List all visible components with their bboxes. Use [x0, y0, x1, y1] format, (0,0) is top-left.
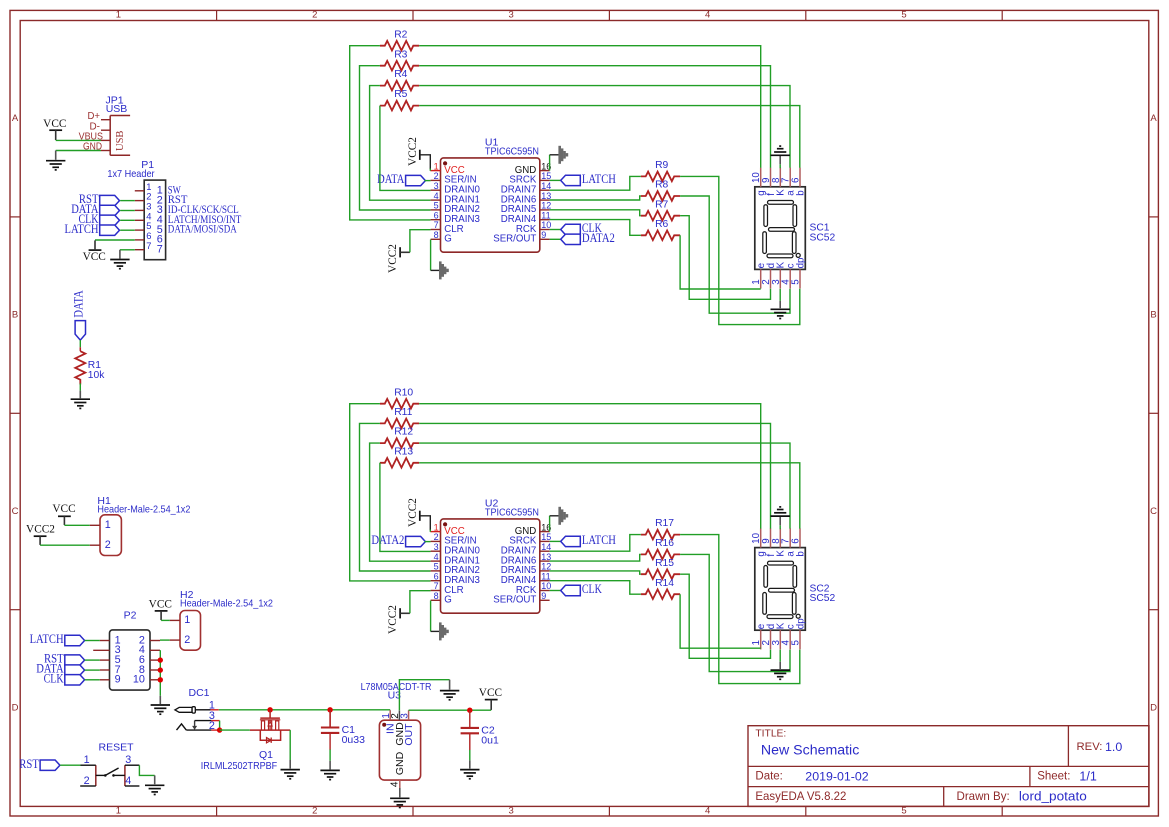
- svg-text:DC1: DC1: [188, 687, 209, 699]
- net flag DATA at U1: [406, 175, 426, 185]
- wire: [680, 196, 790, 313]
- P2 pin 10: [150, 679, 160, 681]
- ground at P1 pin7: [110, 260, 129, 269]
- JP1 pin GND: [101, 150, 110, 152]
- U1 pin 12 DRAIN5: [540, 209, 550, 211]
- wire: [420, 516, 431, 530]
- U1 pin 7 CLR: [431, 229, 441, 231]
- display SC1 body: [755, 187, 806, 270]
- svg-text:SER/OUT: SER/OUT: [493, 595, 536, 606]
- resistor R14: [641, 589, 680, 599]
- svg-text:Header-Male-2.54_1x2: Header-Male-2.54_1x2: [97, 504, 190, 516]
- U1 pin 3 DRAIN0: [431, 189, 441, 191]
- ground at RESET: [145, 785, 164, 794]
- U1 pin 11 DRAIN4: [540, 219, 550, 221]
- U2 pin 10 RCK: [540, 590, 550, 592]
- svg-text:DATA2: DATA2: [371, 533, 404, 547]
- wire: [370, 86, 431, 201]
- svg-text:9: 9: [541, 230, 546, 240]
- svg-text:CLK: CLK: [44, 671, 64, 685]
- svg-text:4: 4: [434, 191, 439, 201]
- wire: [550, 238, 561, 240]
- wire: [550, 571, 641, 574]
- net flag RST at RESET: [40, 760, 60, 770]
- wire: [550, 176, 641, 190]
- U3 pin 2 GND: [398, 710, 400, 720]
- wire: [289, 730, 291, 760]
- wire: [550, 540, 561, 542]
- wire: [779, 650, 781, 662]
- svg-text:R6: R6: [655, 219, 668, 230]
- wire: [380, 106, 431, 191]
- U2 pin 5 DRAIN2: [431, 570, 441, 572]
- svg-text:R7: R7: [655, 199, 668, 210]
- wire: [120, 249, 135, 251]
- capacitor C1: [321, 710, 339, 750]
- svg-text:VCC2: VCC2: [387, 244, 399, 273]
- wire: [85, 659, 100, 661]
- net flag RST at P2: [65, 655, 85, 665]
- wire: [680, 594, 761, 648]
- wire: [159, 650, 161, 696]
- svg-text:TPIC6C595N: TPIC6C595N: [485, 146, 539, 158]
- P2 pin 1: [100, 640, 110, 642]
- IC U1 body: [441, 158, 540, 252]
- resistor R17: [641, 530, 680, 540]
- U1 pin 6 DRAIN3: [431, 219, 441, 221]
- svg-text:R2: R2: [394, 29, 407, 40]
- ground at C2: [460, 770, 479, 779]
- net flag CLK at P1: [100, 215, 120, 225]
- JP1 pin VBUS: [101, 139, 110, 141]
- net flag DATA at P1: [100, 205, 120, 215]
- svg-text:2019-01-02: 2019-01-02: [805, 770, 868, 784]
- svg-text:b: b: [795, 190, 806, 196]
- SC1 bottom pin 5 (dp): [799, 269, 801, 288]
- svg-text:G: G: [444, 595, 452, 606]
- wire: [550, 515, 559, 517]
- svg-text:OUT: OUT: [403, 723, 415, 746]
- power flag VCC: [58, 516, 71, 525]
- junction: [158, 677, 163, 682]
- svg-text:3: 3: [125, 754, 131, 766]
- wire: [399, 680, 449, 711]
- resistor R5: [380, 101, 419, 111]
- SC1 bottom pin 4 (c): [789, 269, 791, 288]
- svg-text:1: 1: [116, 806, 121, 817]
- svg-text:14: 14: [541, 542, 551, 552]
- wire: [419, 443, 790, 528]
- ground at Q1: [281, 770, 300, 779]
- ground at U1 pin8: [440, 261, 447, 279]
- SC1 top pin 9 (f): [770, 168, 772, 187]
- svg-text:5: 5: [434, 201, 439, 211]
- wire: [409, 709, 492, 711]
- transistor Q1: [250, 710, 290, 743]
- resistor R10: [380, 399, 419, 409]
- svg-text:R8: R8: [655, 180, 668, 191]
- wire: [360, 66, 431, 210]
- P2 pin 3: [93, 649, 109, 651]
- ground stem: [779, 662, 781, 669]
- svg-text:B: B: [12, 310, 18, 321]
- svg-text:R5: R5: [394, 89, 407, 100]
- SC1 bottom pin 3 (K): [779, 269, 781, 288]
- wire: [419, 106, 800, 168]
- svg-text:7: 7: [146, 240, 151, 251]
- resistor R2: [380, 41, 419, 51]
- resistor R16: [641, 550, 680, 560]
- net flag LATCH at P2: [65, 635, 85, 645]
- SC1 top pin 6 (b): [799, 168, 801, 187]
- wire: [779, 525, 781, 529]
- P2 pin 7: [100, 669, 110, 671]
- svg-text:New Schematic: New Schematic: [761, 741, 859, 757]
- svg-text:1: 1: [184, 614, 190, 626]
- wire: [550, 179, 561, 181]
- svg-text:VCC2: VCC2: [26, 524, 55, 536]
- svg-text:VCC2: VCC2: [387, 605, 399, 634]
- wire: [219, 721, 221, 731]
- svg-text:3: 3: [509, 10, 514, 21]
- power flag VCC2: [399, 608, 401, 618]
- SC2 top pin 9 (f): [770, 528, 772, 547]
- SC2 top pin 8 (K): [779, 528, 781, 547]
- svg-text:DATA/MOSI/SDA: DATA/MOSI/SDA: [168, 223, 237, 236]
- svg-text:DATA: DATA: [72, 290, 86, 317]
- H2 pin 2: [170, 639, 180, 641]
- svg-text:2: 2: [105, 539, 111, 551]
- resistor R15: [641, 569, 680, 579]
- svg-text:9: 9: [115, 674, 121, 686]
- junction: [467, 708, 472, 713]
- svg-text:b: b: [795, 551, 806, 557]
- svg-text:Header-Male-2.54_1x2: Header-Male-2.54_1x2: [180, 597, 273, 609]
- U3 pin 4: [399, 780, 401, 788]
- svg-text:R10: R10: [394, 387, 413, 398]
- net flag DATA at R1: [75, 321, 85, 341]
- net flag LATCH at U1: [561, 175, 581, 185]
- wire: [419, 66, 770, 168]
- svg-text:3: 3: [434, 542, 439, 552]
- wire: [680, 535, 800, 684]
- wire: [680, 574, 770, 658]
- wire: [550, 554, 641, 561]
- ground stem: [119, 250, 121, 259]
- svg-text:Drawn By:: Drawn By:: [957, 790, 1010, 803]
- wire: [56, 150, 101, 152]
- svg-text:7: 7: [157, 243, 163, 255]
- DC1 pin 3: [211, 720, 219, 722]
- H2 pin 1: [170, 619, 180, 621]
- resistor R4: [380, 81, 419, 91]
- ground stem: [79, 391, 81, 399]
- wire: [350, 404, 431, 581]
- SC2 bottom pin 1 (e): [760, 630, 762, 649]
- U2 pin 15 SRCK: [540, 540, 550, 542]
- JP1 pin D-: [101, 129, 110, 131]
- wire: [419, 86, 790, 168]
- net flag DATA2 at U1: [561, 234, 581, 244]
- wire: [160, 639, 170, 641]
- SC2 seven segment digit: [763, 561, 800, 618]
- svg-text:13: 13: [541, 552, 551, 562]
- svg-text:3: 3: [399, 713, 410, 719]
- svg-text:GND: GND: [394, 751, 406, 775]
- svg-text:4: 4: [705, 806, 710, 817]
- svg-text:5: 5: [791, 640, 802, 646]
- U2 pin 7 CLR: [431, 590, 441, 592]
- svg-text:CLK: CLK: [582, 582, 602, 596]
- ground at JP1: [46, 161, 65, 170]
- net flag LATCH at P1: [100, 225, 120, 235]
- svg-text:Date:: Date:: [755, 771, 783, 783]
- ground at C1: [320, 770, 339, 779]
- wire: [550, 581, 641, 595]
- RESET pin numbers: [84, 754, 132, 787]
- P2 pin 2: [150, 640, 160, 642]
- svg-text:USB: USB: [115, 131, 126, 151]
- wire: [419, 423, 770, 528]
- svg-text:10k: 10k: [88, 370, 105, 381]
- svg-text:VCC2: VCC2: [407, 498, 419, 527]
- P2 pin 8: [150, 669, 160, 671]
- power flag VCC: [49, 130, 62, 140]
- power flag VCC2: [399, 247, 401, 257]
- SC1 top pin 8 (K): [779, 168, 781, 187]
- svg-text:1/1: 1/1: [1079, 770, 1096, 784]
- IC U2 body: [441, 519, 540, 613]
- U1 pin 15 SRCK: [540, 179, 550, 181]
- svg-text:0u1: 0u1: [481, 734, 499, 746]
- svg-text:R4: R4: [394, 69, 407, 80]
- net flag DATA at P2: [65, 665, 85, 675]
- svg-text:4: 4: [434, 552, 439, 562]
- wire: [120, 219, 135, 221]
- wire: [329, 750, 331, 761]
- ground at U3 pin2: [440, 691, 459, 700]
- SC1 top pin 10 (g): [760, 168, 762, 187]
- power flag VCC2: [34, 536, 47, 545]
- net flag CLK at U1: [561, 224, 581, 234]
- svg-text:USB: USB: [106, 103, 128, 115]
- svg-text:10: 10: [541, 220, 551, 230]
- U2 pin 2 SER/IN: [431, 540, 441, 542]
- svg-text:B: B: [1150, 310, 1156, 321]
- svg-text:2: 2: [209, 720, 215, 732]
- junction: [267, 707, 272, 712]
- wire: [431, 630, 440, 632]
- title block: [748, 726, 1149, 807]
- svg-text:1: 1: [116, 10, 121, 21]
- svg-text:lord_potato: lord_potato: [1019, 789, 1087, 803]
- wire: [40, 544, 90, 546]
- svg-text:TPIC6C595N: TPIC6C595N: [485, 507, 539, 519]
- svg-text:R14: R14: [655, 578, 674, 589]
- wire: [680, 216, 770, 300]
- resistor R13: [380, 458, 419, 468]
- wire: [550, 590, 561, 592]
- U2 pin 11 DRAIN4: [540, 580, 550, 582]
- resistor R1 leads: [79, 347, 81, 351]
- svg-text:R17: R17: [655, 518, 674, 529]
- svg-text:10: 10: [133, 674, 145, 686]
- svg-text:G: G: [444, 234, 452, 245]
- connector JP1 body: [110, 116, 130, 156]
- svg-text:REV:: REV:: [1077, 741, 1103, 753]
- svg-text:7: 7: [434, 581, 439, 591]
- svg-text:4: 4: [389, 781, 400, 787]
- svg-text:15: 15: [541, 171, 551, 181]
- wire: [56, 139, 101, 141]
- svg-text:LATCH: LATCH: [582, 172, 616, 186]
- svg-text:8: 8: [434, 230, 439, 240]
- junction: [217, 727, 222, 732]
- wire: [219, 709, 390, 711]
- wire: [779, 164, 781, 168]
- wire: [429, 169, 431, 171]
- U1 pin 1 dot: [443, 161, 447, 165]
- svg-text:TITLE:: TITLE:: [755, 729, 786, 740]
- H1 pin 1: [90, 524, 100, 526]
- junction: [158, 667, 163, 672]
- U2 pin 8 G: [431, 599, 441, 601]
- U1 pin 4 DRAIN1: [431, 199, 441, 201]
- wire: [360, 423, 431, 571]
- wire: [370, 443, 431, 561]
- ground stem: [779, 301, 781, 308]
- P2 pin 4: [150, 649, 160, 651]
- P1 pin 6: [135, 239, 144, 241]
- U2 pin 1 VCC: [430, 531, 440, 533]
- ground at U3 pin4: [390, 798, 409, 807]
- svg-text:VCC: VCC: [479, 687, 502, 699]
- U1 pin 14 DRAIN7: [540, 189, 550, 191]
- wire: [139, 765, 154, 775]
- resistor R6: [641, 231, 680, 241]
- wire: [550, 210, 641, 216]
- ground at SC2 bottom: [771, 670, 790, 679]
- wire: [549, 516, 551, 532]
- net flag DATA2 at U2: [406, 536, 426, 546]
- wire: [410, 591, 431, 614]
- svg-text:VCC: VCC: [149, 599, 172, 611]
- svg-text:2: 2: [434, 171, 439, 181]
- ground at SC1 top: [771, 146, 790, 155]
- C1 top lead wire: [329, 710, 331, 728]
- resistor R3: [380, 61, 419, 71]
- svg-text:P2: P2: [124, 609, 137, 621]
- U2 pin 1 dot: [443, 522, 447, 526]
- connector H1 body: [100, 515, 121, 556]
- P1 pin 7: [135, 249, 144, 251]
- ground at U2 pin16: [560, 507, 567, 525]
- svg-text:1: 1: [105, 519, 111, 531]
- U1 pin 9 SER/OUT: [540, 238, 550, 240]
- ground stem: [55, 151, 57, 160]
- wire: [550, 220, 641, 236]
- U2 pin 3 DRAIN0: [431, 550, 441, 552]
- svg-text:5: 5: [434, 562, 439, 572]
- svg-text:2: 2: [434, 532, 439, 542]
- U1 pin 13 DRAIN6: [540, 199, 550, 201]
- power flag VCC: [155, 611, 168, 620]
- wire: [430, 240, 432, 271]
- wire: [95, 239, 135, 241]
- display SC2 body: [755, 548, 806, 631]
- wire: [469, 750, 471, 761]
- power flag VCC2: [419, 511, 421, 521]
- svg-text:LATCH: LATCH: [30, 632, 64, 646]
- svg-text:SC52: SC52: [810, 232, 836, 243]
- wire: [779, 289, 781, 301]
- wire: [680, 554, 790, 671]
- svg-text:1: 1: [84, 754, 90, 766]
- svg-text:SC52: SC52: [810, 593, 836, 604]
- resistor R11: [380, 419, 419, 429]
- svg-text:6: 6: [791, 538, 802, 544]
- svg-text:IRLML2502TRPBF: IRLML2502TRPBF: [201, 760, 277, 772]
- wire: [680, 176, 800, 324]
- P1 pin 4: [135, 219, 144, 221]
- svg-text:dp: dp: [795, 257, 806, 268]
- junction: [158, 657, 163, 662]
- U2 pin 6 DRAIN3: [431, 580, 441, 582]
- svg-text:R13: R13: [394, 446, 413, 457]
- U1 pin 16 GND: [540, 170, 550, 172]
- wire: [120, 210, 135, 212]
- ground stem: [399, 788, 401, 797]
- svg-text:VCC: VCC: [43, 118, 66, 130]
- connector DC1 plug symbol: [175, 707, 212, 730]
- svg-text:D: D: [1150, 702, 1157, 713]
- P1 pin 5: [135, 229, 144, 231]
- net flag RST at P1: [100, 195, 120, 205]
- SC1 seven segment digit: [763, 201, 800, 258]
- svg-text:2: 2: [312, 10, 317, 21]
- U1 pin 1 VCC: [430, 170, 440, 172]
- U2 pin 9 SER/OUT: [540, 599, 550, 601]
- ground at P2: [151, 705, 170, 714]
- net flag LATCH at U2: [561, 536, 581, 546]
- svg-text:3: 3: [434, 181, 439, 191]
- power flag VCC: [89, 240, 102, 250]
- DC1 pin 1: [211, 709, 219, 711]
- svg-text:VCC2: VCC2: [407, 137, 419, 166]
- svg-text:RST: RST: [19, 757, 39, 771]
- svg-text:6: 6: [434, 210, 439, 220]
- wire: [79, 383, 81, 390]
- wire: [85, 679, 100, 681]
- svg-text:0u33: 0u33: [342, 734, 366, 746]
- wire: [431, 269, 440, 271]
- U1 pin 2 SER/IN: [431, 179, 441, 181]
- resistor R9: [641, 172, 680, 182]
- svg-text:D: D: [12, 702, 19, 713]
- svg-text:EasyEDA V5.8.22: EasyEDA V5.8.22: [755, 790, 846, 803]
- svg-text:8: 8: [434, 591, 439, 601]
- wire: [419, 404, 761, 529]
- svg-text:1x7 Header: 1x7 Header: [107, 168, 155, 180]
- wire: [85, 640, 100, 642]
- wire: [425, 541, 431, 543]
- svg-text:4: 4: [705, 10, 710, 21]
- svg-text:9: 9: [541, 591, 546, 601]
- wire: [420, 155, 431, 169]
- switch RESET body: [80, 765, 139, 786]
- svg-text:VCC: VCC: [83, 251, 106, 263]
- wire: [550, 229, 561, 231]
